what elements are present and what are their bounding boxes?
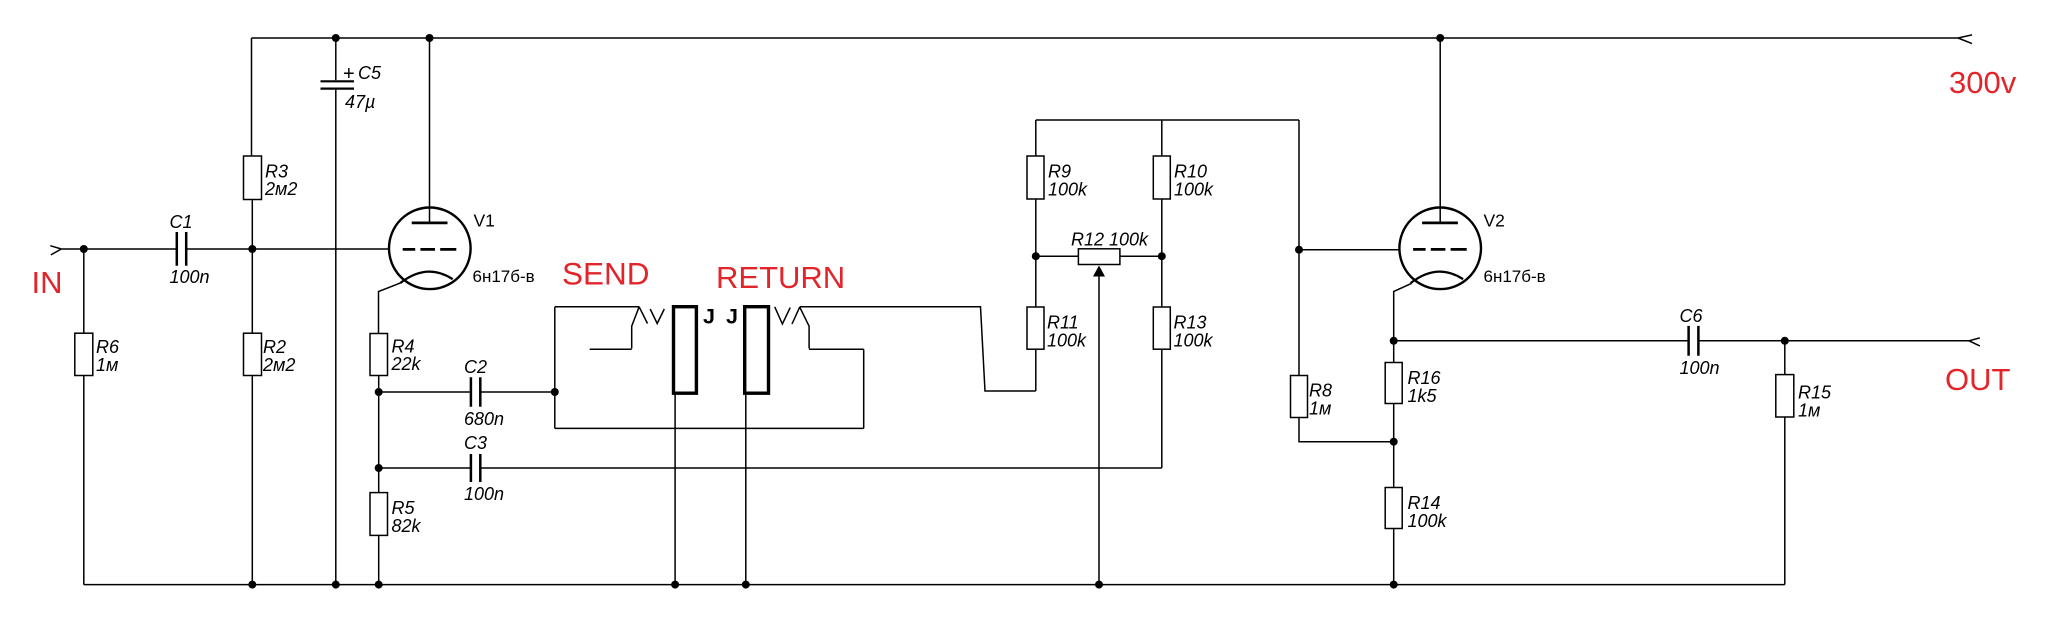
junction dot: R8/R16/R14 node <box>1390 438 1398 446</box>
wire: R14 bottom to ground <box>1393 529 1395 585</box>
svg-text:C1: C1 <box>170 212 193 232</box>
junction dot: R12 left <box>1032 252 1040 260</box>
svg-text:SEND: SEND <box>562 256 650 292</box>
svg-text:100k: 100k <box>1047 331 1087 351</box>
svg-text:100k: 100k <box>1408 511 1448 531</box>
wire: J1 sleeve to ground <box>674 393 676 584</box>
potentiometer R12 row left <box>1036 255 1079 257</box>
wire: C5 top lead <box>335 38 337 80</box>
svg-text:C3: C3 <box>464 433 487 453</box>
wire: loop bottom line <box>555 427 864 429</box>
wire: R15 bottom to ground <box>1784 417 1786 585</box>
potentiometer R12 wiper arrow <box>1098 277 1100 585</box>
svg-text:R8: R8 <box>1309 381 1332 401</box>
resistor R15 <box>1776 375 1794 417</box>
wire: R4 bottom lead <box>378 376 380 393</box>
junction dot: R12 right <box>1158 252 1166 260</box>
wire: V2 plate lead <box>1439 38 1441 222</box>
junction dot: V1 plate at rail <box>426 34 434 42</box>
wire: bus down to V2 grid node <box>1298 120 1300 250</box>
junction dot: J2 at ground <box>742 581 750 589</box>
wire: C3 to R13 <box>482 467 1162 469</box>
junction dot: R5 at ground <box>375 581 383 589</box>
resistor R11 <box>1027 307 1044 349</box>
wire: R3 top lead from rail <box>251 38 253 156</box>
wire: R14 top lead <box>1393 442 1395 488</box>
tube V2 cathode arc <box>1411 272 1464 283</box>
svg-text:100k: 100k <box>1048 180 1088 200</box>
tube V2 anode bar <box>1422 221 1458 224</box>
junction dot: V2 plate at rail <box>1436 34 1444 42</box>
wire: node down to C3 node <box>378 392 380 468</box>
jack J1 (SEND) body <box>674 307 697 394</box>
wire: 300v supply top rail <box>252 37 1959 39</box>
svg-text:R5: R5 <box>392 498 416 518</box>
wire: grid bus <box>1036 119 1299 121</box>
svg-text:+: + <box>343 63 355 85</box>
svg-text:RETURN: RETURN <box>716 260 845 295</box>
wire: output line right of C6 <box>1700 340 1969 342</box>
svg-text:6н17б-в: 6н17б-в <box>473 267 535 286</box>
svg-text:J: J <box>703 305 715 329</box>
tube V2 grid dashes <box>1413 248 1467 251</box>
wire: R10 bottom lead <box>1161 199 1163 256</box>
wire: J2 sleeve to ground <box>745 393 747 584</box>
svg-text:V2: V2 <box>1484 211 1505 231</box>
resistor R13 <box>1153 307 1170 349</box>
svg-text:100n: 100n <box>464 484 504 504</box>
svg-text:82k: 82k <box>392 516 422 536</box>
svg-text:2м2: 2м2 <box>262 355 295 375</box>
wire: R10 top lead <box>1161 120 1163 156</box>
wire: C2 line from R4 node <box>379 391 470 393</box>
svg-text:22k: 22k <box>391 354 422 374</box>
wire: R2 top lead <box>251 249 253 333</box>
wire: R11 bottom lead <box>1035 349 1037 391</box>
wire: R16 bottom lead <box>1393 404 1395 442</box>
capacitor C5 (electrolytic) <box>321 81 355 88</box>
wire: C2 to send node <box>482 391 555 393</box>
junction dot: send node <box>551 388 559 396</box>
svg-text:R11: R11 <box>1047 313 1079 333</box>
junction dot: V2 grid node <box>1295 246 1303 254</box>
svg-text:1м: 1м <box>1798 401 1820 421</box>
svg-text:47µ: 47µ <box>345 92 375 112</box>
svg-text:C2: C2 <box>464 357 487 377</box>
wire: bottom ground rail <box>84 584 1785 586</box>
junction dot: C5 at ground <box>332 581 340 589</box>
svg-text:C6: C6 <box>1680 306 1704 326</box>
resistor R16 <box>1385 363 1402 404</box>
resistor R5 <box>370 493 388 536</box>
wire: loop left vertical <box>554 307 556 429</box>
svg-text:1м: 1м <box>96 355 118 375</box>
wire: R5 bottom to ground <box>378 535 380 584</box>
resistor R4 <box>370 334 388 376</box>
svg-text:1k5: 1k5 <box>1408 386 1438 406</box>
capacitor C6 <box>1689 326 1699 356</box>
wire: V1 cathode tail <box>379 283 401 333</box>
wire: R16 top lead <box>1393 341 1395 363</box>
tube V1 envelope <box>389 208 471 290</box>
potentiometer R12 body <box>1078 249 1120 265</box>
wire: R13 bottom to C3 line <box>1161 349 1163 468</box>
wire: R8 top lead from grid node <box>1298 250 1300 376</box>
svg-text:R2: R2 <box>263 337 286 357</box>
wire: R2 bottom lead to ground <box>251 376 253 585</box>
svg-text:300v: 300v <box>1949 65 2017 100</box>
junction dot: R4/C2 node <box>375 388 383 396</box>
tube V2 envelope <box>1399 208 1481 290</box>
junction dot: C5 at rail <box>332 34 340 42</box>
resistor R10 <box>1153 156 1170 199</box>
wire: R8 bottom lead <box>1299 418 1394 442</box>
wire: C5 bottom lead to ground <box>335 90 337 585</box>
wire: V1 plate lead <box>429 38 431 222</box>
wire: input line left of C1 <box>61 248 176 250</box>
wire: V2 cathode tail <box>1394 283 1412 341</box>
potentiometer R12 row right <box>1120 255 1162 257</box>
junction dot: grid node at R3/R2 <box>248 245 256 253</box>
junction dot: R2 at ground <box>248 581 256 589</box>
svg-text:R9: R9 <box>1048 162 1071 182</box>
resistor R8 <box>1291 376 1308 418</box>
wire: R9 top to bus <box>1035 120 1037 156</box>
svg-text:6н17б-в: 6н17б-в <box>1484 267 1546 286</box>
svg-text:680n: 680n <box>464 409 504 429</box>
svg-text:V1: V1 <box>474 211 495 231</box>
svg-text:100k: 100k <box>1174 331 1214 351</box>
wire: R11 top to R12 row <box>1035 256 1037 307</box>
junction dot: R14 at ground <box>1390 581 1398 589</box>
OUT off-page arrow <box>1969 338 1980 346</box>
svg-text:R10: R10 <box>1174 162 1207 182</box>
svg-text:R6: R6 <box>96 337 120 357</box>
wire: output line to C6 <box>1394 340 1688 342</box>
svg-text:100n: 100n <box>170 267 210 287</box>
junction dot: IN node <box>80 245 88 253</box>
300v off-page arrow <box>1958 35 1972 44</box>
tube V1 grid dashes <box>403 248 457 251</box>
capacitor C3 <box>471 454 480 482</box>
wire: R9 bottom lead <box>1035 199 1037 256</box>
junction dot: wiper at ground <box>1095 581 1103 589</box>
resistor R14 <box>1385 488 1402 529</box>
svg-text:IN: IN <box>32 265 63 300</box>
svg-text:100n: 100n <box>1680 358 1720 378</box>
wire: R13 top lead <box>1161 256 1163 307</box>
junction dot: C3 node <box>375 464 383 472</box>
wire: return tip line to R11 <box>800 307 1036 391</box>
jack J1 send switch spring <box>590 307 665 349</box>
junction dot: J1 at ground <box>671 581 679 589</box>
junction dot: R15 at output <box>1781 337 1789 345</box>
tube V1 cathode arc <box>400 272 453 283</box>
wire: V2 grid line <box>1299 249 1400 251</box>
svg-text:R16: R16 <box>1408 368 1442 388</box>
wire: R6 bottom lead to ground rail <box>83 376 85 585</box>
wire: R15 top lead <box>1784 341 1786 375</box>
wire: input line right of C1 to V1 grid <box>187 248 389 250</box>
junction dot: output node <box>1390 337 1398 345</box>
svg-text:OUT: OUT <box>1945 362 2011 397</box>
resistor R3 <box>244 156 262 200</box>
svg-text:J: J <box>726 305 738 329</box>
svg-text:R14: R14 <box>1408 493 1441 513</box>
svg-text:1м: 1м <box>1309 399 1331 419</box>
resistor R6 <box>75 333 93 375</box>
svg-text:C5: C5 <box>358 63 382 83</box>
node: IN input arrow <box>50 246 61 255</box>
resistor R9 <box>1027 156 1044 199</box>
tube V1 anode bar <box>412 221 448 224</box>
svg-text:100k: 100k <box>1174 180 1214 200</box>
wire: R3 bottom lead <box>251 200 253 250</box>
svg-text:2м2: 2м2 <box>264 179 297 199</box>
svg-text:R15: R15 <box>1798 383 1832 403</box>
capacitor C1 <box>177 232 186 266</box>
capacitor C2 <box>471 377 480 407</box>
svg-text:R13: R13 <box>1174 313 1207 333</box>
wire: R6 top lead <box>83 249 85 333</box>
jack J2 (RETURN) body <box>745 307 769 394</box>
resistor R2 <box>244 333 262 375</box>
svg-text:R12 100k: R12 100k <box>1071 229 1149 249</box>
wire: send top line <box>555 306 639 308</box>
wire: C3 line from node <box>379 467 470 469</box>
wire: to R5 <box>378 468 380 493</box>
jack J2 return switch spring <box>775 307 864 429</box>
